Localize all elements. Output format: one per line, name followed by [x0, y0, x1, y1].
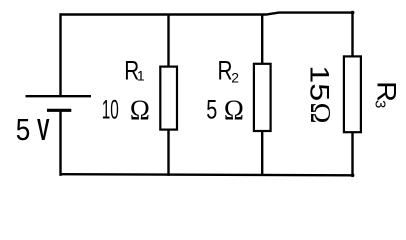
svg-text:R: R: [372, 81, 402, 102]
svg-text:Ω: Ω: [224, 94, 244, 126]
svg-text:Ω: Ω: [304, 103, 336, 124]
svg-text:2: 2: [231, 70, 239, 86]
svg-text:3: 3: [371, 100, 388, 108]
svg-text:5: 5: [16, 112, 30, 147]
svg-text:5: 5: [206, 94, 217, 124]
svg-text:1: 1: [137, 68, 145, 84]
svg-text:V: V: [37, 112, 50, 147]
svg-text:Ω: Ω: [130, 94, 150, 126]
svg-text:10: 10: [102, 94, 119, 124]
svg-text:15: 15: [305, 65, 335, 101]
